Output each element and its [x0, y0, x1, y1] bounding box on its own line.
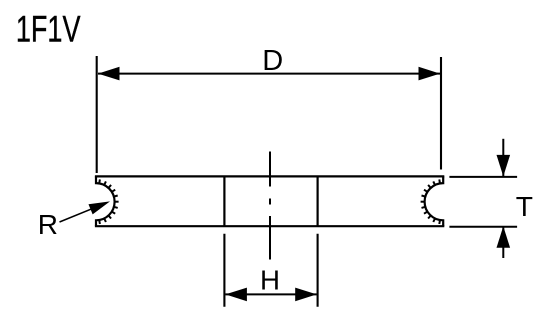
wire: dimension D extension line left [96, 56, 98, 173]
bore line right [317, 176, 319, 226]
leader line R [60, 203, 106, 222]
wire: dimension T line lower [502, 226, 504, 258]
left end face with radius R recess [96, 176, 115, 226]
wire: dimension T line upper [502, 139, 504, 177]
svg-text:1F1V: 1F1V [16, 8, 81, 49]
centerline dash-dot [269, 152, 271, 260]
title label 1F1V [16, 8, 81, 49]
wire: dimension T extension line bottom [449, 226, 517, 228]
arrowhead D left [98, 67, 120, 81]
serration ticks left recess [99, 179, 118, 224]
wheel body top edge [95, 175, 444, 177]
wire: dimension H extension line left [223, 234, 225, 307]
arrowhead H left [225, 288, 247, 302]
arrowhead D right [419, 67, 441, 81]
wheel body bottom edge [95, 225, 444, 227]
wire: dimension D extension line right [440, 57, 442, 170]
svg-text:T: T [516, 190, 533, 222]
arrowhead T bottom [497, 226, 511, 248]
arrowhead R [88, 196, 112, 214]
arrowhead H right [295, 288, 317, 302]
serration ticks right recess [421, 179, 440, 224]
right end face with radius R recess [425, 176, 444, 226]
svg-text:H: H [260, 265, 280, 296]
arrowhead T top [497, 155, 511, 177]
wire: dimension H line [225, 293, 316, 295]
wire: dimension D line [98, 73, 440, 75]
wire: dimension H extension line right [317, 234, 319, 307]
svg-text:R: R [38, 209, 58, 240]
wire: dimension T extension line top [449, 176, 517, 178]
bore line left [223, 176, 225, 226]
svg-text:D: D [262, 45, 283, 77]
